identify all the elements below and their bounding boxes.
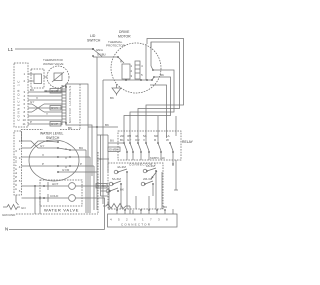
wire N bus	[9, 229, 105, 231]
wire motor exit BK	[150, 85, 167, 131]
wire thermistor bottom	[44, 85, 66, 91]
svg-text:WATER VALVE: WATER VALVE	[43, 62, 64, 66]
svg-text:LID: LID	[90, 34, 96, 38]
svg-text:P: P	[30, 120, 32, 124]
drive motor M1	[106, 30, 161, 93]
svg-text:W: W	[166, 138, 169, 142]
svg-text:GY: GY	[30, 100, 34, 104]
svg-text:GY/BU: GY/BU	[97, 53, 106, 57]
svg-text:SWITCH: SWITCH	[87, 39, 101, 43]
svg-text:GY/V: GY/V	[51, 106, 58, 110]
svg-text:GY/R: GY/R	[62, 168, 70, 172]
svg-text:BU: BU	[163, 205, 167, 209]
svg-text:618P3 - 10: 618P3 - 10	[150, 156, 165, 160]
wire BK to relay	[88, 126, 118, 128]
svg-text:11: 11	[23, 122, 26, 126]
dashed boundary horizontal	[21, 129, 43, 131]
svg-text:SWITCH: SWITCH	[46, 136, 60, 140]
wire motor loop outer	[146, 39, 184, 132]
dashed boundary vertical	[79, 84, 81, 130]
wires switch exits down	[85, 150, 87, 213]
thermistor / water valve assembly	[28, 58, 69, 91]
svg-text:P: P	[80, 162, 82, 166]
timer area	[97, 158, 163, 209]
svg-text:COLD: COLD	[50, 194, 59, 198]
svg-text:P: P	[42, 162, 44, 166]
svg-text:GN/A: GN/A	[96, 48, 103, 52]
wire motor loop 4	[124, 77, 171, 131]
wires connector1 to ladder	[28, 88, 62, 126]
wire drop to timer	[96, 57, 98, 210]
svg-text:GY: GY	[40, 144, 44, 148]
dashed boundary bottom	[16, 213, 98, 215]
svg-text:GROUND: GROUND	[2, 213, 16, 217]
wire motor loop 3	[130, 70, 174, 131]
svg-text:GY/P: GY/P	[51, 122, 58, 126]
water valve assembly	[22, 180, 83, 213]
solenoid arrow	[151, 171, 157, 179]
svg-text:BU: BU	[30, 88, 34, 92]
svg-text:BK: BK	[110, 96, 114, 100]
svg-text:CONNECTOR 1C: CONNECTOR 1C	[17, 79, 21, 121]
svg-text:V: V	[143, 138, 145, 142]
svg-text:4A-3M: 4A-3M	[117, 165, 126, 169]
wire motor common drop	[102, 80, 104, 204]
lid switch SW1	[87, 34, 103, 57]
svg-text:BU: BU	[110, 139, 114, 143]
motor winding common exit	[103, 79, 126, 81]
svg-text:CONNECTOR: CONNECTOR	[121, 223, 151, 227]
svg-text:Y: Y	[46, 112, 48, 116]
svg-text:CONNECTOR A: CONNECTOR A	[14, 148, 18, 190]
wire relay bottom right drop	[175, 160, 177, 190]
svg-text:RELAY: RELAY	[182, 140, 194, 144]
svg-text:BK: BK	[105, 123, 109, 127]
svg-text:5A-6M: 5A-6M	[112, 177, 121, 181]
svg-text:L1: L1	[8, 47, 14, 52]
svg-text:HOT: HOT	[52, 182, 59, 186]
connector ladder strip	[62, 85, 72, 125]
svg-text:N: N	[5, 227, 8, 232]
svg-text:GY/BK: GY/BK	[97, 184, 106, 188]
bottom connector	[108, 209, 178, 227]
svg-text:V: V	[42, 153, 44, 157]
wire valve ground drops	[34, 185, 36, 187]
svg-text:DRIVE: DRIVE	[119, 30, 130, 34]
svg-text:BU: BU	[79, 146, 83, 150]
svg-text:WATER LEVEL: WATER LEVEL	[40, 132, 63, 136]
svg-text:GY/R: GY/R	[51, 89, 59, 93]
ground symbol	[2, 205, 26, 218]
wire ladder top to right drop	[66, 84, 88, 213]
svg-text:WATER VALVE: WATER VALVE	[44, 208, 79, 213]
svg-text:MOTOR: MOTOR	[118, 35, 131, 39]
timer feed verticals	[100, 135, 102, 196]
relay top feed stubs	[123, 131, 125, 143]
svg-text:2M-3A: 2M-3A	[143, 177, 152, 181]
noise filter zigzag	[103, 204, 130, 209]
wire lid switch to motor	[93, 56, 113, 58]
wire motor loop 2	[138, 42, 180, 131]
svg-text:BU: BU	[120, 138, 124, 142]
svg-text:V: V	[36, 96, 38, 100]
svg-text:GN/BK: GN/BK	[109, 148, 118, 152]
svg-text:GY: GY	[127, 138, 131, 142]
relay box	[118, 131, 194, 166]
water level switch	[22, 132, 98, 182]
connector 2 (lower left)	[14, 131, 22, 205]
wires valve outputs	[82, 186, 109, 210]
svg-text:MOTOR HARNESS: MOTOR HARNESS	[68, 85, 72, 123]
svg-text:BK: BK	[120, 188, 124, 192]
connector 1 (upper left)	[14, 63, 28, 127]
svg-text:BK: BK	[160, 73, 164, 77]
svg-text:GN: GN	[21, 206, 26, 210]
wire ladder bottom	[66, 123, 92, 176]
svg-text:1A-1M: 1A-1M	[146, 164, 155, 168]
wire L1 bus	[15, 48, 93, 50]
wires timer to connector	[126, 196, 128, 209]
wire relay input left	[108, 142, 124, 144]
motor plug BK	[110, 84, 121, 100]
